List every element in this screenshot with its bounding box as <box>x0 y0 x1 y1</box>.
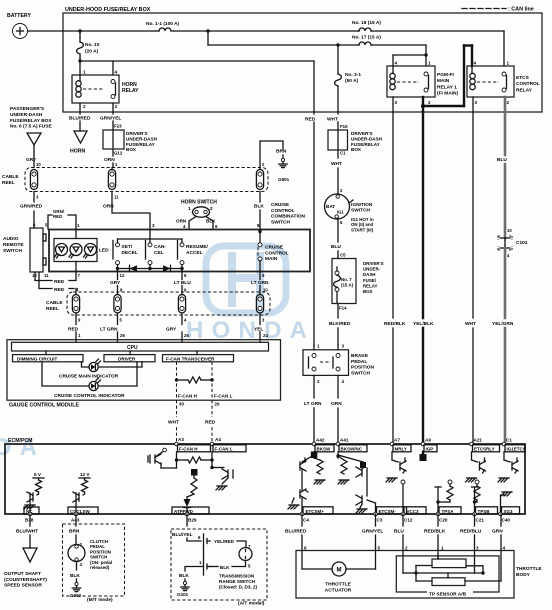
svg-text:12: 12 <box>120 273 125 278</box>
svg-text:MRLY: MRLY <box>395 447 407 452</box>
svg-text:M: M <box>337 568 342 574</box>
svg-text:PEDAL: PEDAL <box>351 359 367 365</box>
svg-text:SWITCH: SWITCH <box>351 208 370 214</box>
svg-text:C1: C1 <box>340 151 346 156</box>
svg-text:11: 11 <box>114 195 119 200</box>
svg-text:BRN: BRN <box>69 529 80 535</box>
svg-text:ETCS: ETCS <box>516 75 530 81</box>
svg-text:FUSE/RELAY: FUSE/RELAY <box>351 142 380 147</box>
svg-text:CABLE: CABLE <box>2 174 19 180</box>
svg-text:(20 A): (20 A) <box>85 49 99 55</box>
svg-text:BOX: BOX <box>363 289 373 294</box>
svg-text:TPSB: TPSB <box>478 509 491 514</box>
svg-text:BLU: BLU <box>394 529 404 535</box>
svg-text:BLK: BLK <box>206 219 216 224</box>
svg-text:8: 8 <box>257 223 260 228</box>
svg-text:RELAY: RELAY <box>122 88 139 94</box>
svg-text:26: 26 <box>120 333 125 338</box>
svg-text:1: 1 <box>83 70 86 75</box>
svg-text:BRN: BRN <box>276 149 287 155</box>
svg-text:GRN/RED: GRN/RED <box>20 204 43 210</box>
svg-text:C3: C3 <box>377 518 383 523</box>
svg-text:2: 2 <box>428 100 431 105</box>
svg-text:WHT: WHT <box>168 420 179 426</box>
svg-text:ETCSM-: ETCSM- <box>379 509 397 514</box>
svg-text:3: 3 <box>476 546 479 551</box>
svg-text:(A/T model): (A/T model) <box>238 601 265 607</box>
svg-text:2: 2 <box>83 104 86 109</box>
svg-text:HORN: HORN <box>70 149 86 155</box>
svg-text:B29: B29 <box>188 518 197 523</box>
svg-text:RELAY: RELAY <box>363 283 378 288</box>
svg-text:F15: F15 <box>340 124 348 129</box>
svg-text:BAT: BAT <box>326 204 335 209</box>
svg-text:F-CAN H: F-CAN H <box>179 447 198 452</box>
svg-text:BOX: BOX <box>351 147 362 152</box>
svg-text:No. 6 (7.5 A) FUSE: No. 6 (7.5 A) FUSE <box>10 124 52 130</box>
svg-text:MAIN: MAIN <box>437 78 450 84</box>
svg-text:G302: G302 <box>70 593 82 598</box>
svg-text:No. 3-1: No. 3-1 <box>345 72 361 78</box>
svg-text:WHT: WHT <box>331 161 342 167</box>
svg-text:C20: C20 <box>439 518 448 523</box>
svg-text:12 V: 12 V <box>80 472 90 477</box>
svg-text:POSITION: POSITION <box>351 365 374 371</box>
svg-text:REEL: REEL <box>2 180 15 186</box>
svg-text:ORN: ORN <box>176 219 187 224</box>
svg-text:(50 A): (50 A) <box>345 78 359 84</box>
svg-text:G12: G12 <box>114 151 123 156</box>
svg-text:6: 6 <box>304 546 307 551</box>
svg-text:RANGE SWITCH: RANGE SWITCH <box>219 579 256 584</box>
svg-text:AUDIO: AUDIO <box>3 236 19 242</box>
svg-text:GRY: GRY <box>110 280 121 286</box>
svg-text:PGM-FI: PGM-FI <box>437 72 454 78</box>
svg-text:TRANSMISSION: TRANSMISSION <box>219 574 255 579</box>
svg-text:BLU/RED: BLU/RED <box>69 116 91 122</box>
svg-text:IGNITION: IGNITION <box>351 202 373 208</box>
svg-text:10: 10 <box>507 228 512 233</box>
svg-text:(COUNTERSHAFT): (COUNTERSHAFT) <box>4 577 47 583</box>
svg-text:LED: LED <box>99 248 109 254</box>
svg-text:4: 4 <box>115 70 118 75</box>
svg-text:DRIVER'S: DRIVER'S <box>363 261 384 266</box>
svg-text:C21: C21 <box>476 518 485 523</box>
svg-text:CEL: CEL <box>154 250 164 256</box>
svg-text:THROTTLE: THROTTLE <box>325 582 351 588</box>
svg-text:24: 24 <box>263 333 268 338</box>
svg-text:(Closed: D, D3, 2): (Closed: D, D3, 2) <box>219 585 258 590</box>
svg-text:G501: G501 <box>278 177 290 182</box>
svg-text:UNDER-HOOD FUSE/RELAY BOX: UNDER-HOOD FUSE/RELAY BOX <box>65 7 151 13</box>
svg-text:: CAN line: : CAN line <box>508 7 534 13</box>
svg-text:1: 1 <box>188 206 191 211</box>
svg-text:1: 1 <box>441 546 444 551</box>
svg-text:CABLE: CABLE <box>46 300 63 306</box>
svg-text:REEL: REEL <box>46 306 59 312</box>
svg-text:3: 3 <box>152 223 155 228</box>
svg-text:No. 1-1 (100 A): No. 1-1 (100 A) <box>146 21 180 27</box>
svg-text:C1: C1 <box>506 438 512 443</box>
svg-text:29: 29 <box>215 402 220 407</box>
svg-text:BLK: BLK <box>254 204 264 210</box>
svg-text:CCCLSW: CCCLSW <box>70 509 90 514</box>
svg-text:F14: F14 <box>339 306 347 311</box>
svg-text:A21: A21 <box>474 438 483 443</box>
svg-text:FUSE/RELAY BOX: FUSE/RELAY BOX <box>10 118 52 124</box>
svg-text:RED: RED <box>68 327 79 333</box>
svg-text:GRN/YEL: GRN/YEL <box>100 116 121 122</box>
svg-text:ACCEL: ACCEL <box>186 250 203 256</box>
svg-text:5 V: 5 V <box>34 472 42 477</box>
svg-text:3: 3 <box>115 104 118 109</box>
svg-text:CPU: CPU <box>127 345 138 351</box>
svg-text:CRUISE: CRUISE <box>271 202 290 208</box>
svg-text:GRY: GRY <box>166 327 177 333</box>
svg-text:RED: RED <box>205 420 216 426</box>
svg-text:DIMMING CIRCUIT: DIMMING CIRCUIT <box>17 356 58 361</box>
svg-text:BLK: BLK <box>220 565 230 570</box>
svg-text:TP SENSOR A/B: TP SENSOR A/B <box>429 592 467 598</box>
svg-text:FUSE/: FUSE/ <box>363 278 377 283</box>
svg-text:BKSW: BKSW <box>317 447 332 452</box>
svg-text:ORN: ORN <box>104 157 115 163</box>
svg-text:(M/T mode): (M/T mode) <box>87 597 113 603</box>
svg-text:CRUISE: CRUISE <box>265 245 284 251</box>
svg-text:No. 7: No. 7 <box>341 277 352 282</box>
svg-text:BRAKE: BRAKE <box>351 353 369 359</box>
svg-text:CRUISE MAIN INDICATOR: CRUISE MAIN INDICATOR <box>59 374 119 380</box>
svg-text:26: 26 <box>184 333 189 338</box>
svg-text:4: 4 <box>395 61 398 66</box>
svg-text:1: 1 <box>507 61 510 66</box>
svg-text:CAN-: CAN- <box>154 244 166 250</box>
svg-text:THROTTLE: THROTTLE <box>516 566 542 572</box>
svg-text:No. 17 (15 A): No. 17 (15 A) <box>352 35 381 41</box>
svg-text:START (III): START (III) <box>351 227 374 232</box>
svg-text:YEL: YEL <box>254 327 263 333</box>
svg-text:A7: A7 <box>394 438 400 443</box>
svg-text:BLU/YEL: BLU/YEL <box>172 532 193 538</box>
svg-text:ATPFWD: ATPFWD <box>174 509 194 514</box>
svg-text:C5: C5 <box>340 253 346 258</box>
svg-text:RED: RED <box>54 279 65 285</box>
svg-text:No. 18 (15 A): No. 18 (15 A) <box>352 20 381 26</box>
svg-text:RELAY: RELAY <box>516 87 533 93</box>
svg-text:ETCSRLY: ETCSRLY <box>474 447 495 452</box>
svg-text:2: 2 <box>405 546 408 551</box>
svg-text:BLK: BLK <box>70 573 80 579</box>
svg-text:IG1ETCS: IG1ETCS <box>507 447 526 452</box>
svg-text:GRN: GRN <box>492 529 503 535</box>
svg-text:30: 30 <box>179 402 184 407</box>
svg-text:ORN: ORN <box>331 401 342 407</box>
svg-text:A42: A42 <box>316 438 325 443</box>
svg-text:RED: RED <box>53 214 62 219</box>
svg-text:CONTROL: CONTROL <box>265 250 289 256</box>
svg-text:SET/: SET/ <box>122 244 133 250</box>
svg-text:UNDER-DASH: UNDER-DASH <box>126 136 158 141</box>
svg-text:BLU/RED: BLU/RED <box>285 529 307 535</box>
svg-text:C40: C40 <box>502 518 511 523</box>
svg-text:PASSENGER'S: PASSENGER'S <box>10 106 45 112</box>
svg-text:HORN SWITCH: HORN SWITCH <box>181 200 217 206</box>
svg-text:4: 4 <box>503 546 506 551</box>
svg-text:F23: F23 <box>114 124 122 129</box>
svg-text:3: 3 <box>475 100 478 105</box>
svg-text:YEL/RED: YEL/RED <box>214 539 235 544</box>
svg-text:SWITCH: SWITCH <box>3 248 22 254</box>
svg-text:WHT: WHT <box>465 321 476 327</box>
svg-text:UNDER-DASH: UNDER-DASH <box>351 136 383 141</box>
svg-text:C12: C12 <box>404 518 413 523</box>
svg-text:SWITCH: SWITCH <box>271 219 290 225</box>
svg-text:RED/BLK: RED/BLK <box>424 529 446 535</box>
svg-text:A9: A9 <box>425 438 431 443</box>
svg-text:YEL/GRN: YEL/GRN <box>492 321 514 327</box>
svg-text:11: 11 <box>44 273 49 278</box>
svg-text:2: 2 <box>210 206 213 211</box>
svg-text:A4: A4 <box>215 437 221 442</box>
svg-text:SPEED SENSOR: SPEED SENSOR <box>4 583 42 589</box>
svg-text:DRIVER: DRIVER <box>118 356 136 361</box>
svg-text:GAUGE CONTROL MODULE: GAUGE CONTROL MODULE <box>9 403 79 409</box>
svg-text:BODY: BODY <box>516 572 531 578</box>
svg-text:A3: A3 <box>178 437 184 442</box>
svg-text:released): released) <box>90 565 110 570</box>
svg-text:REMOTE: REMOTE <box>3 242 24 248</box>
svg-text:A41: A41 <box>340 438 349 443</box>
svg-text:TPSA: TPSA <box>442 509 455 514</box>
svg-text:F-CAN TRANSCEIVER: F-CAN TRANSCEIVER <box>166 356 215 361</box>
svg-text:SWITCH: SWITCH <box>351 370 370 376</box>
svg-text:C4: C4 <box>303 518 309 523</box>
svg-text:RESUME/: RESUME/ <box>186 244 209 250</box>
svg-text:10: 10 <box>36 162 41 167</box>
svg-text:UNDER-: UNDER- <box>363 267 381 272</box>
svg-text:RED: RED <box>54 287 65 293</box>
svg-text:LT GRN: LT GRN <box>304 401 322 407</box>
svg-text:4: 4 <box>474 61 477 66</box>
svg-text:VCC3: VCC3 <box>407 509 420 514</box>
svg-text:LT GRN: LT GRN <box>100 327 118 333</box>
svg-text:RED/BLK: RED/BLK <box>384 321 406 327</box>
svg-text:SG3: SG3 <box>504 509 514 514</box>
svg-text:YEL/BLK: YEL/BLK <box>413 321 434 327</box>
svg-text:IGP: IGP <box>426 447 434 452</box>
svg-text:OUTPUT SHAFT: OUTPUT SHAFT <box>4 571 41 577</box>
svg-text:DRIVER'S: DRIVER'S <box>351 131 373 136</box>
svg-text:RELAY 1: RELAY 1 <box>437 84 457 90</box>
svg-text:(FI MAIN): (FI MAIN) <box>437 91 458 97</box>
svg-text:(15 A): (15 A) <box>341 282 354 287</box>
svg-text:F-CAN H: F-CAN H <box>178 394 198 399</box>
svg-text:BKSW/NC: BKSW/NC <box>341 447 363 452</box>
svg-text:DRIVER'S: DRIVER'S <box>126 131 148 136</box>
svg-text:CONTROL: CONTROL <box>516 81 540 87</box>
svg-text:No. 10: No. 10 <box>85 42 100 48</box>
svg-text:G101: G101 <box>177 592 189 597</box>
svg-text:BLU: BLU <box>497 157 507 163</box>
svg-text:1: 1 <box>428 61 431 66</box>
svg-text:UNDER-DASH: UNDER-DASH <box>10 112 43 118</box>
svg-text:BOX: BOX <box>126 147 137 152</box>
svg-text:RED/BLU: RED/BLU <box>460 529 482 535</box>
svg-text:FUSE/RELAY: FUSE/RELAY <box>126 142 155 147</box>
svg-text:CRUISE CONTROL INDICATOR: CRUISE CONTROL INDICATOR <box>54 393 125 399</box>
svg-text:ETCSM+: ETCSM+ <box>306 509 325 514</box>
svg-text:F-CAN L: F-CAN L <box>215 447 233 452</box>
svg-text:C101: C101 <box>516 240 528 246</box>
svg-text:BLK/RED: BLK/RED <box>329 321 351 327</box>
svg-text:BLK: BLK <box>179 573 189 579</box>
svg-text:F-CAN L: F-CAN L <box>214 394 233 399</box>
svg-text:GRN/YEL: GRN/YEL <box>362 529 383 535</box>
svg-text:ACTUATOR: ACTUATOR <box>325 588 352 594</box>
svg-text:3: 3 <box>395 100 398 105</box>
svg-text:BLU/WHT: BLU/WHT <box>16 529 38 535</box>
svg-text:WHT: WHT <box>327 117 338 123</box>
svg-text:2: 2 <box>507 100 510 105</box>
svg-text:DECEL: DECEL <box>122 250 138 256</box>
svg-text:CONTROL: CONTROL <box>271 208 295 214</box>
svg-text:COMBINATION: COMBINATION <box>271 214 306 220</box>
svg-text:MAIN: MAIN <box>265 256 278 262</box>
svg-text:IG1: IG1 <box>337 210 344 215</box>
svg-text:BATTERY: BATTERY <box>7 13 31 19</box>
svg-text:5: 5 <box>378 546 381 551</box>
svg-text:DASH: DASH <box>363 272 375 277</box>
svg-text:BLU: BLU <box>331 244 341 250</box>
svg-text:1: 1 <box>77 223 80 228</box>
